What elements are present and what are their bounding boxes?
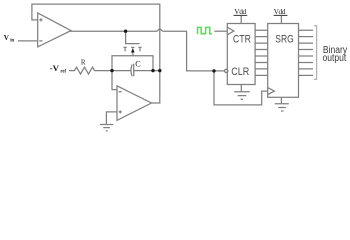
svg-text:output: output — [323, 53, 347, 64]
svg-text:in: in — [10, 39, 14, 44]
svg-text:CTR: CTR — [233, 34, 251, 46]
svg-text:SRG: SRG — [275, 34, 293, 46]
svg-text:Vdd: Vdd — [234, 7, 246, 16]
svg-text:ref: ref — [60, 69, 66, 74]
svg-text:CLR: CLR — [231, 66, 249, 78]
svg-text:Vdd: Vdd — [274, 7, 286, 16]
svg-text:-V: -V — [50, 63, 60, 73]
svg-text:R: R — [81, 58, 86, 66]
svg-text:C: C — [135, 59, 141, 68]
svg-text:V: V — [4, 34, 10, 42]
